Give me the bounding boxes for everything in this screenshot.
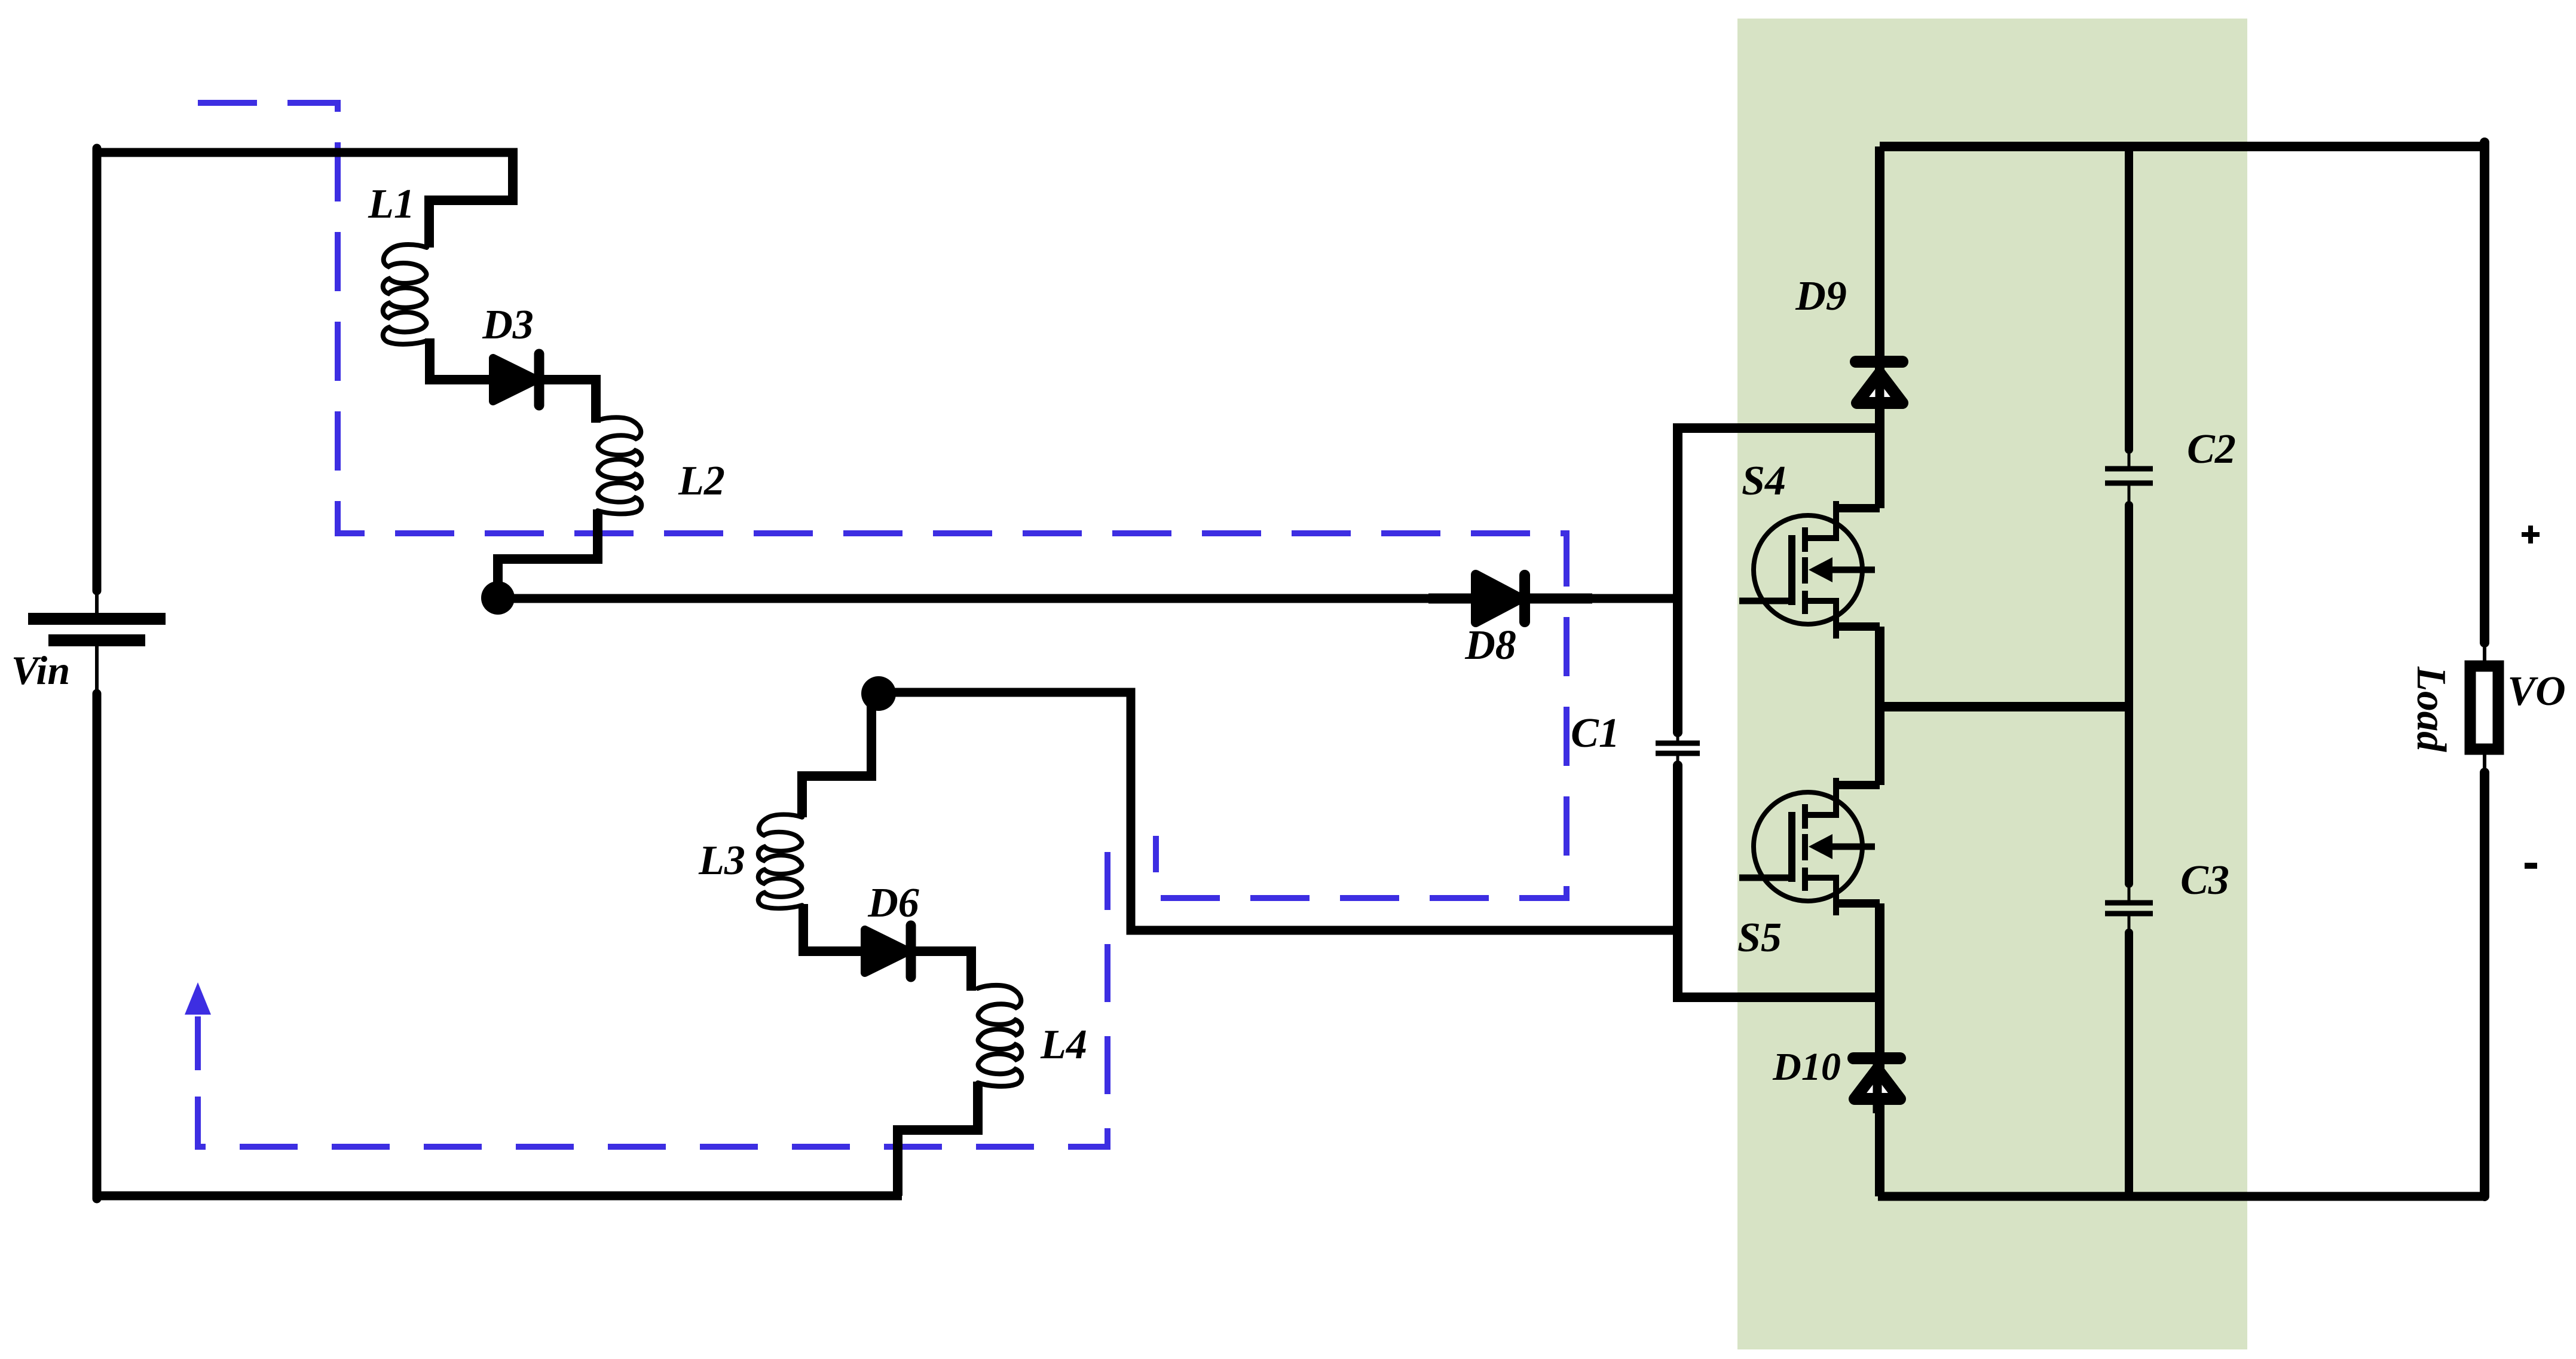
- capacitor C3: [2105, 900, 2153, 906]
- svg-text:C1: C1: [1571, 710, 1620, 756]
- inductor L2: [598, 417, 641, 514]
- top-left wire from battery + to L1: [97, 148, 518, 157]
- blue dashed current path 1 (top loop through L1/D3/L2 to C1 area): [198, 103, 1567, 898]
- svg-text:S5: S5: [1737, 915, 1782, 961]
- svg-text:D9: D9: [1795, 273, 1847, 319]
- load lower lead: [2483, 755, 2486, 772]
- long wire node A to D8 and C1: [498, 594, 1678, 603]
- blue arrow on path 2: [195, 1016, 201, 1070]
- bottom-right rail: [1878, 1192, 2485, 1201]
- wire S4 source down to midpoint and S5 drain: [1875, 627, 1884, 785]
- wire node B down to L3: [802, 694, 871, 817]
- wire midpoint to C2/C3 junction: [1880, 702, 2129, 711]
- diode D9 (pointing up): [1857, 373, 1902, 403]
- diode D6: [865, 930, 908, 973]
- transistor S4: [1739, 501, 1880, 639]
- wire D6 to L4: [908, 951, 971, 991]
- wire C1 top to D9 anode node: [1678, 428, 1880, 598]
- capacitor C2: [2105, 466, 2153, 472]
- node A junction dot: [481, 581, 515, 615]
- battery Vin plates: [28, 613, 166, 625]
- svg-text:D10: D10: [1772, 1045, 1841, 1089]
- svg-text:D6: D6: [867, 880, 919, 926]
- svg-text:L2: L2: [678, 458, 725, 504]
- diode D8: [1476, 575, 1521, 622]
- svg-text:S4: S4: [1742, 458, 1786, 504]
- svg-text:D3: D3: [482, 302, 534, 348]
- capacitor C3 upper lead: [2125, 707, 2133, 884]
- svg-text:C2: C2: [2187, 426, 2236, 472]
- diode D8 lead: [1428, 594, 1592, 604]
- wire L1 to D3: [430, 338, 496, 380]
- svg-text:D8: D8: [1464, 622, 1516, 668]
- plus terminal label: [2522, 532, 2540, 537]
- wire node B right and down to lower rail: [879, 692, 1678, 930]
- capacitor C1: [1656, 741, 1700, 746]
- capacitor C2 upper lead: [2125, 146, 2133, 450]
- diode D10 (pointing up): [1855, 1069, 1900, 1099]
- svg-text:L3: L3: [698, 838, 745, 884]
- diode D3: [493, 358, 537, 401]
- load right vertical upper: [2480, 142, 2489, 643]
- top-right wire from D9 to load: [1880, 142, 2485, 151]
- svg-text:VO: VO: [2507, 668, 2565, 714]
- svg-text:L1: L1: [368, 181, 415, 227]
- load resistor box: [2470, 666, 2498, 749]
- inductor L4: [978, 985, 1021, 1086]
- green highlighted region: [1737, 19, 2247, 1349]
- wire L4 down to bottom rail: [898, 1082, 978, 1196]
- blue dashed current path 2 (bottom loop along battery return and L4): [198, 824, 1108, 1147]
- minus terminal label: [2525, 863, 2537, 869]
- svg-text:Load: Load: [2408, 666, 2454, 752]
- svg-text:L4: L4: [1040, 1022, 1087, 1068]
- wire L2 to node A: [498, 509, 598, 586]
- wire D9 branch vertical: [1875, 146, 1884, 508]
- capacitor C1 upper lead: [1673, 594, 1682, 732]
- node B junction dot (L3 branch): [861, 676, 896, 711]
- capacitor C3 lower lead: [2128, 914, 2131, 933]
- wire S5 source down through D10 to bottom rail: [1875, 903, 1884, 1196]
- svg-text:Vin: Vin: [11, 648, 70, 693]
- inductor L1: [383, 245, 427, 344]
- transistor S5: [1739, 778, 1880, 915]
- wire D3 to L2: [537, 380, 596, 423]
- bottom-left rail: [97, 1192, 902, 1201]
- wire L3 to D6: [803, 904, 868, 951]
- capacitor C2 lower lead: [2128, 483, 2131, 505]
- inductor L3: [758, 814, 802, 908]
- wire jog into L1: [429, 152, 513, 248]
- battery Vin lower lead: [95, 646, 99, 694]
- capacitor C1 lower lead: [1676, 753, 1679, 765]
- wire left vertical battery top: [93, 148, 102, 591]
- svg-text:C3: C3: [2180, 857, 2229, 903]
